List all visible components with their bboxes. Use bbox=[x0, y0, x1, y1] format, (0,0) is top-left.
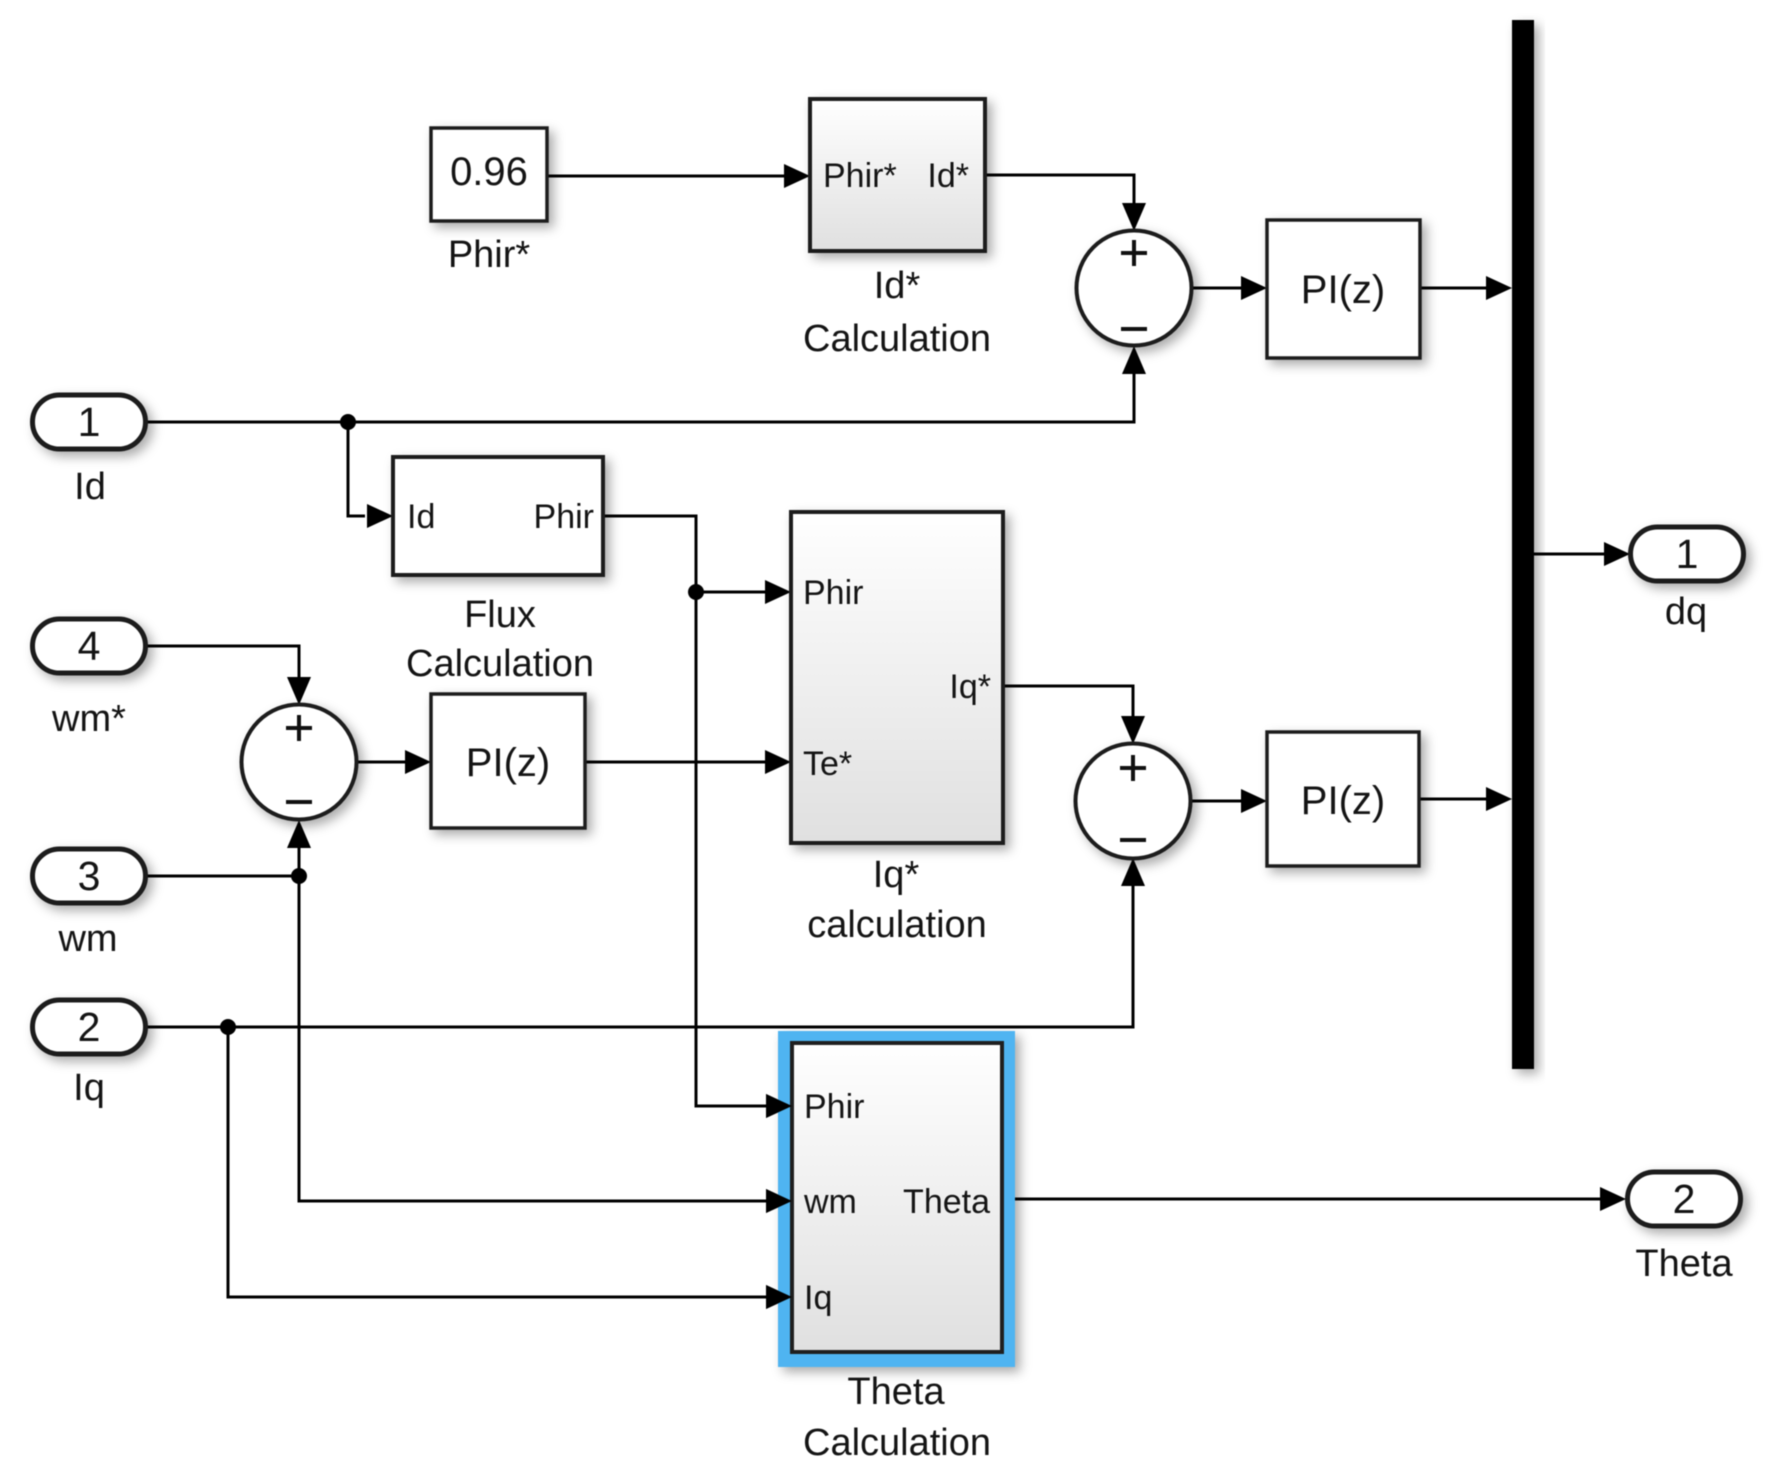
wire PI(z) speed to Iq* calc Te* input bbox=[585, 761, 765, 764]
junction node on Iq wire bbox=[220, 1019, 236, 1035]
wire wm branch down to Theta Calc bbox=[299, 876, 766, 1201]
svg-text:2: 2 bbox=[1673, 1176, 1696, 1222]
subsystem block Theta Calculation with blue highlight bbox=[778, 1031, 1015, 1367]
svg-text:Calculation: Calculation bbox=[803, 318, 991, 360]
wire arrow into sum2 bottom bbox=[287, 820, 311, 848]
wire Flux output Phir: right, down to Theta Calc Phir input bbox=[603, 516, 766, 1106]
svg-text:Flux: Flux bbox=[464, 594, 536, 636]
wire arrow into mux top input bbox=[1486, 276, 1512, 300]
label Flux Calculation bbox=[406, 594, 594, 685]
wire arrow into PI(z)2 bbox=[1241, 789, 1267, 813]
svg-text:wm: wm bbox=[803, 1183, 857, 1221]
svg-text:0.96: 0.96 bbox=[450, 150, 528, 194]
svg-text:Phir: Phir bbox=[804, 1088, 864, 1126]
svg-text:calculation: calculation bbox=[807, 904, 987, 946]
wire arrow into sum3 top bbox=[1121, 716, 1145, 744]
label Id* Calculation bbox=[803, 265, 991, 360]
wire arrow into Id* Calculation Phir* input bbox=[784, 164, 810, 188]
svg-text:4: 4 bbox=[78, 623, 101, 669]
wire port4 wm* to sum2 top bbox=[147, 646, 299, 677]
svg-text:Id*: Id* bbox=[927, 157, 969, 195]
wire 0.96 to Id* Calculation bbox=[547, 175, 784, 178]
svg-text:Id: Id bbox=[74, 466, 106, 508]
wire Id main: port1 to sum1 bottom bbox=[147, 374, 1134, 422]
subsystem block Id* Calculation bbox=[810, 99, 985, 251]
mux bar bbox=[1512, 20, 1534, 1069]
junction node on Id wire bbox=[340, 414, 356, 430]
in port 3 wm bbox=[33, 849, 146, 903]
junction node on wm line bbox=[291, 868, 307, 884]
svg-text:Id: Id bbox=[407, 498, 435, 536]
svg-text:Iq*: Iq* bbox=[949, 668, 991, 706]
wire Iq* calc output to sum3 top bbox=[1003, 686, 1133, 716]
svg-text:Theta: Theta bbox=[903, 1183, 990, 1221]
wire arrow into out port Theta bbox=[1600, 1187, 1626, 1211]
wire arrow into sum1 bottom bbox=[1122, 346, 1146, 374]
wire Iq branch down to Theta Calc Iq input bbox=[228, 1027, 766, 1297]
wire arrow into Theta Calc Phir input bbox=[766, 1094, 792, 1118]
svg-text:Calculation: Calculation bbox=[803, 1422, 991, 1464]
svg-text:Iq: Iq bbox=[804, 1279, 832, 1317]
svg-text:Calculation: Calculation bbox=[406, 643, 594, 685]
svg-text:Id*: Id* bbox=[874, 265, 921, 307]
wire arrow into PI(z)1 bbox=[1241, 276, 1267, 300]
sum block sum2 bbox=[242, 705, 357, 820]
constant block 0.96 bbox=[431, 128, 547, 221]
svg-text:Iq: Iq bbox=[73, 1067, 105, 1109]
wire arrow tips over highlight: Phir, wm, Iq inputs bbox=[766, 1094, 792, 1309]
gain block PI(z) speed bbox=[431, 694, 585, 828]
svg-text:2: 2 bbox=[78, 1004, 101, 1050]
wire arrow into sum2 top bbox=[287, 677, 311, 705]
svg-text:PI(z): PI(z) bbox=[1301, 779, 1385, 823]
in port 1 Id bbox=[33, 395, 146, 449]
svg-text:PI(z): PI(z) bbox=[466, 741, 550, 785]
svg-text:wm*: wm* bbox=[51, 698, 126, 740]
subsystem block Iq* calculation bbox=[791, 512, 1003, 843]
label Theta Calculation bbox=[803, 1371, 991, 1464]
wire PI(z)2 to mux bbox=[1419, 798, 1486, 801]
svg-text:wm: wm bbox=[57, 918, 117, 960]
svg-text:Phir: Phir bbox=[534, 498, 594, 536]
svg-text:Phir*: Phir* bbox=[823, 157, 897, 195]
wire arrow into mux bottom input bbox=[1486, 787, 1512, 811]
svg-text:PI(z): PI(z) bbox=[1301, 268, 1385, 312]
svg-text:Phir*: Phir* bbox=[448, 234, 531, 276]
svg-text:Theta: Theta bbox=[1635, 1243, 1733, 1285]
wire arrow into sum3 bottom bbox=[1121, 858, 1145, 886]
wire arrow into Iq* calc Te* input bbox=[765, 750, 791, 774]
out port 1 dq bbox=[1631, 527, 1744, 581]
gain block PI(z)2 bbox=[1267, 732, 1419, 866]
junction node on Phir line bbox=[688, 584, 704, 600]
sum block sum3 bbox=[1076, 744, 1191, 859]
wire sum2 to PI(z) speed bbox=[357, 761, 405, 764]
svg-text:Phir: Phir bbox=[803, 574, 863, 612]
wire port2 Iq main to sum3 bottom bbox=[147, 886, 1133, 1027]
wire Theta Calc output to out port Theta bbox=[1002, 1198, 1600, 1201]
wire port3 wm to sum2 bottom and down to Theta Calc wm input bbox=[147, 848, 299, 876]
wire sum3 to PI(z)2 bbox=[1191, 800, 1241, 803]
wire PI(z)1 to mux bbox=[1420, 287, 1486, 290]
wire arrow into Theta Calc wm input bbox=[766, 1189, 792, 1213]
in port 2 Iq bbox=[33, 1000, 146, 1054]
in port 4 wm* bbox=[33, 619, 146, 673]
wire Id* Calc output to sum1 top bbox=[985, 175, 1134, 203]
wire arrow into Theta Calc Iq input bbox=[766, 1285, 792, 1309]
wire Id branch down to Flux input bbox=[348, 422, 365, 516]
wire arrow into Iq* calc Phir input bbox=[765, 580, 791, 604]
svg-text:Iq*: Iq* bbox=[873, 854, 920, 896]
label Iq* calculation bbox=[807, 854, 987, 946]
wire sum1 to PI(z)1 bbox=[1192, 287, 1241, 290]
svg-text:1: 1 bbox=[1676, 531, 1699, 577]
svg-text:Theta: Theta bbox=[847, 1371, 945, 1413]
wire Phir branch to Iq* calc Phir input bbox=[696, 591, 765, 594]
subsystem block Flux Calculation bbox=[393, 457, 603, 575]
wire mux to out port dq bbox=[1534, 553, 1604, 556]
wire arrow into sum1 top bbox=[1122, 203, 1146, 231]
svg-text:1: 1 bbox=[78, 399, 101, 445]
svg-text:dq: dq bbox=[1665, 591, 1707, 633]
out port 2 Theta bbox=[1628, 1172, 1741, 1226]
svg-text:3: 3 bbox=[78, 853, 101, 899]
wire arrow into out port dq bbox=[1604, 542, 1630, 566]
wire arrow into Flux Id input bbox=[367, 504, 393, 528]
svg-text:Te*: Te* bbox=[803, 745, 852, 783]
gain block PI(z)1 bbox=[1267, 220, 1420, 358]
sum block sum1 bbox=[1077, 231, 1192, 346]
wire arrow into PI(z) speed bbox=[405, 750, 431, 774]
